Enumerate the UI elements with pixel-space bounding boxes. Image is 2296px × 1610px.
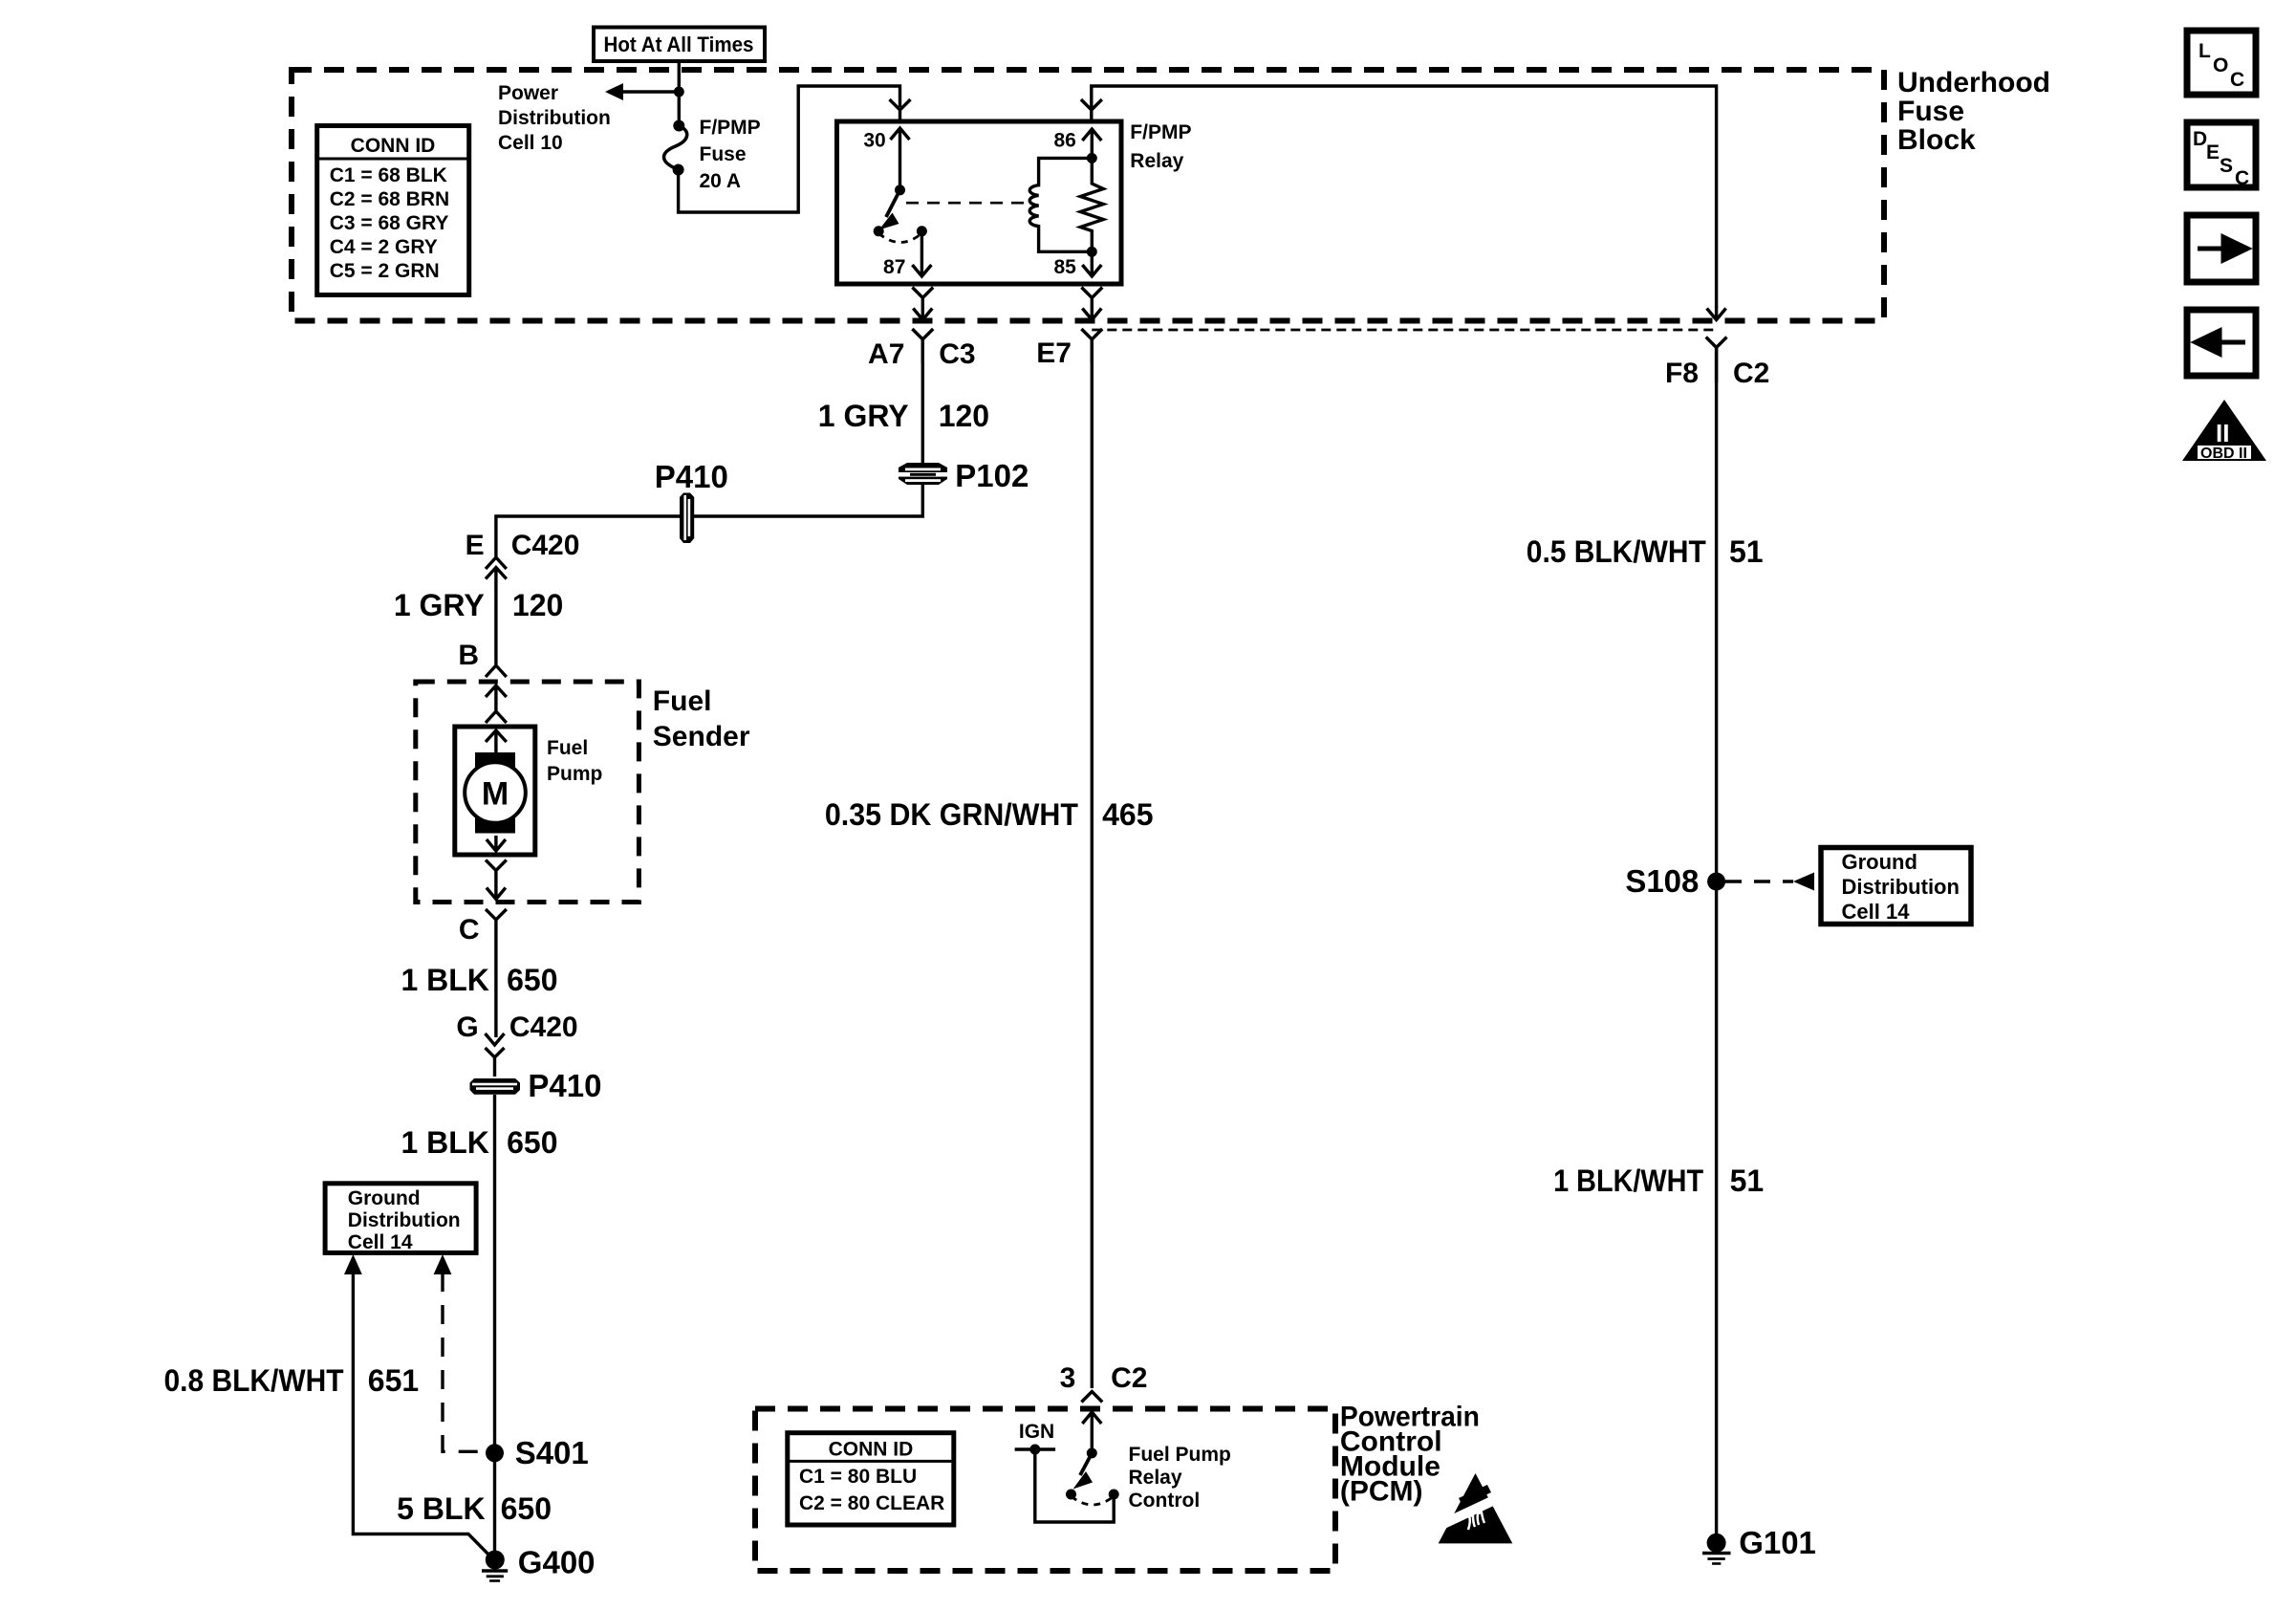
label E C420 (466, 530, 580, 561)
arrow into ground dist box dashed (434, 1254, 452, 1274)
svg-text:C2 = 68 BRN: C2 = 68 BRN (330, 188, 449, 210)
OBD II triangle icon (2182, 400, 2266, 462)
svg-text:B: B (458, 640, 479, 671)
label Fuel Pump Relay Control (1129, 1444, 1231, 1512)
motor M with brushes (465, 752, 526, 834)
svg-text:Relay: Relay (1129, 1467, 1182, 1489)
label 1 GRY 120 (lower) (394, 588, 563, 622)
svg-text:1 BLK: 1 BLK (401, 963, 488, 997)
arrow into ground dist right (1793, 873, 1814, 891)
svg-text:G: G (456, 1012, 478, 1043)
connector pin B chevron (486, 665, 507, 677)
svg-text:651: 651 (368, 1363, 419, 1398)
svg-text:C2: C2 (1111, 1362, 1147, 1394)
svg-text:P410: P410 (655, 459, 728, 494)
svg-text:CONN ID: CONN ID (829, 1439, 914, 1461)
label Powertrain Control Module (PCM) (1340, 1402, 1480, 1508)
svg-text:20 A: 20 A (700, 170, 742, 192)
ground distribution cell 14 box right (1821, 848, 1971, 925)
svg-text:C2: C2 (1733, 358, 1769, 389)
svg-text:(PCM): (PCM) (1340, 1476, 1423, 1508)
arrow into PCM (1082, 1412, 1101, 1453)
label 0.5 BLK/WHT 51 (1527, 534, 1764, 569)
wire A7 to P102 (921, 339, 924, 465)
svg-text:E: E (2206, 141, 2220, 163)
svg-text:Hot At All Times: Hot At All Times (604, 33, 754, 56)
svg-text:A7: A7 (868, 338, 904, 370)
connector Y below border E7 (1081, 329, 1102, 363)
label F8 C2 (1665, 358, 1769, 389)
arrow into ground dist box solid (344, 1254, 362, 1274)
label G C420 (456, 1012, 577, 1043)
svg-text:1 BLK: 1 BLK (401, 1125, 488, 1160)
fuel sender dashed box (416, 682, 639, 903)
fuel pump box (455, 727, 535, 855)
PCM dashed box (755, 1409, 1335, 1572)
svg-text:120: 120 (512, 588, 563, 622)
relay switch pivot dot (895, 185, 905, 195)
right-arrow legend box (2187, 215, 2256, 282)
svg-text:C420: C420 (511, 530, 580, 561)
grommet P102 (899, 463, 947, 485)
svg-text:E7: E7 (1036, 337, 1072, 369)
svg-text:85: 85 (1053, 256, 1076, 278)
relay coil (inductor) (1029, 158, 1092, 251)
svg-text:Distribution: Distribution (348, 1209, 461, 1231)
label Power Distribution Cell 10 (498, 82, 611, 154)
svg-text:O: O (2213, 54, 2228, 76)
svg-text:30: 30 (863, 130, 885, 152)
ground G101 (1702, 1534, 1731, 1564)
svg-text:0.35 DK GRN/WHT: 0.35 DK GRN/WHT (825, 797, 1078, 832)
svg-text:Cell 14: Cell 14 (1842, 900, 1911, 924)
svg-text:Power: Power (498, 82, 558, 104)
svg-text:C: C (2230, 69, 2244, 91)
svg-text:OBD II: OBD II (2200, 446, 2247, 462)
svg-text:650: 650 (501, 1491, 552, 1526)
connector Y below border A7 (912, 329, 933, 363)
node junction at fuse top (674, 87, 684, 98)
svg-text:F/PMP: F/PMP (700, 117, 761, 139)
label 1 BLK 650 (lower) (401, 1125, 557, 1160)
svg-text:Cell 10: Cell 10 (498, 132, 563, 154)
DESC legend box (2187, 122, 2256, 189)
arrow at sender box bottom (487, 887, 506, 900)
connector Y above relay pin 86 (1081, 99, 1102, 121)
svg-text:5 BLK: 5 BLK (397, 1491, 485, 1526)
svg-text:0.5 BLK/WHT: 0.5 BLK/WHT (1527, 534, 1706, 569)
label F/PMP Fuse 20 A (700, 117, 761, 192)
svg-text:650: 650 (507, 1125, 557, 1160)
PCM conn id table (788, 1433, 954, 1525)
label F/PMP Relay (1130, 121, 1191, 172)
svg-text:0.8 BLK/WHT: 0.8 BLK/WHT (164, 1363, 344, 1398)
svg-text:F/PMP: F/PMP (1130, 121, 1191, 143)
wire junction to fuse (678, 92, 681, 126)
wire P410 to S401 (493, 1095, 496, 1453)
svg-text:Relay: Relay (1130, 150, 1183, 172)
svg-text:3: 3 (1060, 1362, 1076, 1394)
left-arrow legend box (2187, 310, 2256, 376)
ground distribution cell 14 box left (325, 1184, 476, 1253)
svg-text:Block: Block (1897, 124, 1976, 156)
IGN branch wire (1035, 1449, 1114, 1522)
PCM contact dot left (1066, 1490, 1076, 1500)
relay F/PMP box (837, 121, 1122, 284)
label 0.8 BLK/WHT 651 (164, 1363, 420, 1398)
PCM dashed throw arc (1072, 1496, 1115, 1505)
svg-text:D: D (2193, 128, 2207, 150)
svg-text:Underhood: Underhood (1897, 67, 2050, 98)
svg-text:Fuse: Fuse (1897, 96, 1964, 127)
thin dashed connector line E7 to F8 (1092, 329, 1716, 332)
connector C420 pin E chevron (486, 557, 507, 569)
svg-text:Ground: Ground (348, 1187, 421, 1209)
wire E7 to PCM (1091, 339, 1094, 1388)
dashed wire to S401 (443, 1273, 483, 1451)
label 1 BLK/WHT 51 (1553, 1164, 1764, 1198)
svg-text:M: M (482, 776, 509, 813)
arrow at fuse block border F8 (1707, 306, 1726, 320)
svg-text:87: 87 (883, 256, 905, 278)
connector Y below sender box pin C (486, 909, 507, 1037)
PCM switch pivot dot (1087, 1447, 1097, 1458)
svg-text:II: II (2216, 419, 2229, 447)
svg-text:1 GRY: 1 GRY (394, 588, 485, 622)
label 3 C2 (1060, 1362, 1148, 1394)
wire fuse to relay pin 30 (679, 86, 900, 212)
svg-text:G400: G400 (518, 1545, 596, 1580)
svg-text:Fuse: Fuse (700, 143, 747, 165)
arrow into fuel pump (486, 730, 507, 755)
relay pin 30 arrow inside (891, 128, 910, 190)
dashed wire S108 to ground dist (1725, 880, 1793, 882)
label A7 C3 (868, 338, 976, 370)
splice S108 (1707, 873, 1725, 891)
wire F8 to G101 (1715, 348, 1718, 1542)
svg-text:Ground: Ground (1842, 850, 1917, 874)
connector C420 pin E arrow (486, 568, 507, 665)
wire P102 to C420 pin E (496, 485, 922, 556)
svg-text:C420: C420 (509, 1012, 578, 1043)
svg-text:IGN: IGN (1019, 1421, 1054, 1443)
wire relay 86 to F8 (1092, 86, 1717, 308)
svg-text:E: E (466, 530, 485, 561)
svg-text:S401: S401 (515, 1435, 589, 1470)
svg-text:Cell 14: Cell 14 (348, 1231, 413, 1253)
dashed actuator line (906, 202, 1028, 205)
label 1 GRY 120 (upper) (818, 399, 989, 433)
svg-text:P102: P102 (955, 458, 1029, 493)
wire hot box to junction (678, 61, 681, 92)
svg-text:86: 86 (1053, 130, 1075, 152)
connector chevron above relay pin 30 (890, 99, 911, 121)
arrow to power distribution (605, 83, 623, 100)
svg-text:Sender: Sender (653, 721, 750, 752)
svg-text:Pump: Pump (547, 763, 602, 785)
svg-text:Fuel: Fuel (547, 737, 588, 759)
svg-text:L: L (2199, 40, 2211, 62)
svg-text:P410: P410 (528, 1068, 601, 1103)
svg-text:G101: G101 (1739, 1525, 1816, 1560)
svg-text:Control: Control (1129, 1490, 1201, 1512)
label 5 BLK 650 (397, 1491, 552, 1526)
svg-text:C4 = 2 GRY: C4 = 2 GRY (330, 236, 438, 258)
connector Y below border F8 (1706, 337, 1727, 383)
svg-text:C3 = 68 GRY: C3 = 68 GRY (330, 212, 449, 234)
svg-text:CONN ID: CONN ID (351, 135, 436, 157)
relay contact dot right (pin 87) (917, 226, 927, 236)
svg-text:C3: C3 (939, 338, 975, 370)
relay coil branch node bottom (1087, 247, 1097, 257)
connector Y below fuel pump (486, 860, 507, 888)
relay coil branch node top (1087, 153, 1097, 163)
connector Y below relay pin 85 (1081, 288, 1102, 309)
connector chevron pin 3 (1081, 1392, 1102, 1403)
svg-text:S108: S108 (1625, 863, 1699, 899)
PCM contact dot right (1109, 1490, 1119, 1500)
svg-text:51: 51 (1730, 1164, 1765, 1198)
wire motor to pump box bottom with arrow (487, 836, 506, 851)
splice S401 (486, 1444, 504, 1462)
label Underhood Fuse Block (1897, 67, 2050, 156)
IGN pin line with dot (1015, 1445, 1056, 1455)
label 0.35 DK GRN/WHT 465 (825, 797, 1154, 832)
connector C420 pin G chevron (486, 1048, 505, 1077)
label 1 BLK 650 (upper) (401, 963, 557, 997)
ground G400 (482, 1453, 508, 1581)
svg-text:F8: F8 (1665, 358, 1699, 389)
relay switch armature (879, 190, 900, 230)
grommet P410 lower (470, 1078, 521, 1095)
label Fuel Pump (547, 737, 602, 785)
arrow at fuse block border pin 87 (913, 309, 932, 320)
fuse F/PMP 20A symbol (664, 120, 687, 176)
svg-text:C2 = 80 CLEAR: C2 = 80 CLEAR (799, 1492, 944, 1514)
svg-text:Fuel: Fuel (653, 685, 712, 717)
wire to power distribution arrow (621, 90, 679, 93)
svg-text:C: C (2235, 167, 2249, 189)
svg-text:C: C (459, 914, 480, 946)
svg-text:1 GRY: 1 GRY (818, 399, 909, 433)
svg-text:Fuel Pump: Fuel Pump (1129, 1444, 1231, 1466)
relay resistor zigzag (1080, 158, 1103, 251)
svg-text:Distribution: Distribution (498, 107, 611, 129)
grommet P410 inline (680, 493, 694, 544)
ESD warning icon (1434, 1473, 1516, 1543)
svg-text:C5 = 2 GRN: C5 = 2 GRN (330, 260, 440, 282)
relay contact dot left (874, 226, 884, 236)
Hot At All Times box (594, 28, 765, 62)
dashed throw arc (878, 233, 921, 243)
svg-text:Distribution: Distribution (1842, 875, 1960, 899)
relay pin 87 wire with down arrow (912, 231, 931, 276)
arrow at fuse block border pin 85 (1082, 309, 1101, 320)
PCM switch armature (1073, 1453, 1094, 1490)
svg-text:51: 51 (1729, 534, 1764, 569)
connector C420 pin G arrow down (486, 1033, 505, 1045)
wire 651 solid (353, 1273, 494, 1560)
arrow into fuel sender (486, 685, 507, 723)
svg-text:C1 = 68 BLK: C1 = 68 BLK (330, 164, 447, 186)
svg-text:465: 465 (1102, 797, 1153, 832)
relay pin 86 arrow inside (1082, 129, 1101, 158)
connector Y below relay pin 87 (912, 288, 933, 309)
UFB conn id table (317, 126, 469, 295)
label Fuel Sender (653, 685, 750, 752)
underhood fuse block dashed box (292, 70, 1884, 321)
LOC legend box (2187, 31, 2256, 95)
svg-text:1 BLK/WHT: 1 BLK/WHT (1553, 1164, 1703, 1198)
svg-text:650: 650 (507, 963, 557, 997)
svg-text:120: 120 (939, 399, 989, 433)
svg-text:S: S (2220, 155, 2233, 177)
relay pin 85 wire with down arrow (1082, 251, 1101, 276)
svg-text:C1 = 80 BLU: C1 = 80 BLU (799, 1466, 917, 1488)
